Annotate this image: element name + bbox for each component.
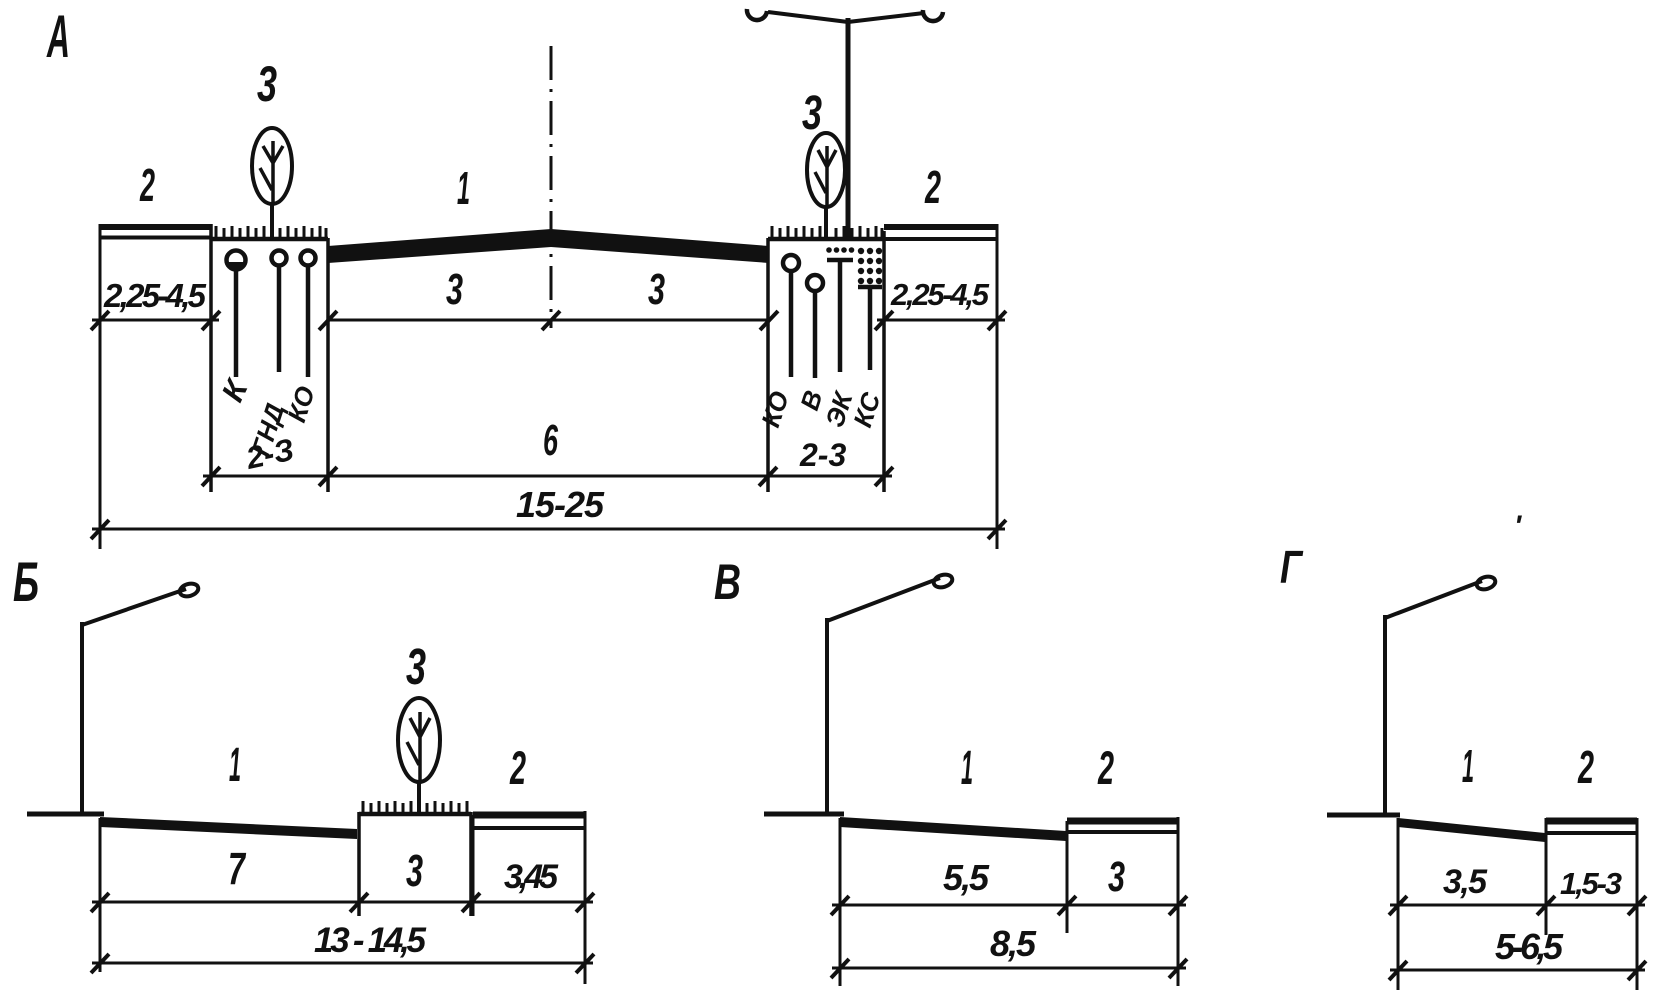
svg-text:5-6,5: 5-6,5 bbox=[1495, 926, 1564, 967]
ground line left of pole bbox=[764, 812, 844, 817]
sidewalk inner edge bbox=[1066, 821, 1069, 933]
svg-text:КО: КО bbox=[755, 387, 795, 430]
middle dimension line (2-3 / 6 / 2-3) bbox=[203, 475, 892, 478]
tree (left, section A) crown bbox=[252, 128, 292, 204]
svg-text:2,25-4,5: 2,25-4,5 bbox=[890, 277, 990, 312]
dim tick bbox=[91, 520, 109, 539]
svg-text:1: 1 bbox=[1462, 740, 1474, 792]
overall dimension line 8,5 bbox=[832, 967, 1186, 970]
svg-text:3: 3 bbox=[802, 87, 822, 140]
lamp arm left bbox=[768, 12, 848, 22]
ground line left of pole bbox=[1327, 813, 1400, 818]
left sidewalk top surface (double line) bbox=[100, 224, 211, 230]
left planting strip left edge bbox=[209, 224, 213, 492]
tree (section B) crown bbox=[398, 698, 440, 782]
svg-text:1: 1 bbox=[229, 739, 241, 792]
left extension line bbox=[99, 818, 102, 972]
dim tick bbox=[319, 311, 337, 330]
tree branches bbox=[815, 146, 836, 206]
utility V stem bbox=[813, 291, 818, 378]
road centreline (dash-dot) bbox=[550, 46, 553, 328]
ground line left of pole bbox=[27, 812, 104, 817]
dim tick bbox=[576, 954, 594, 973]
sidewalk inner edge bbox=[1545, 818, 1548, 935]
dim tick bbox=[1537, 896, 1555, 915]
utility V symbol (circle) bbox=[807, 275, 823, 291]
svg-text:А: А bbox=[46, 3, 70, 70]
svg-text:1: 1 bbox=[961, 742, 973, 795]
svg-text:2: 2 bbox=[139, 159, 155, 211]
roadway surface band (section V) bbox=[840, 817, 1066, 841]
planting strip left edge bbox=[357, 812, 361, 916]
dim tick bbox=[760, 311, 778, 330]
sidewalk top surface (double line) bbox=[1067, 818, 1178, 825]
svg-text:2-3: 2-3 bbox=[799, 437, 846, 473]
utility K stem bbox=[234, 270, 239, 377]
lamp arm bbox=[82, 589, 186, 625]
sidewalk top surface (double line) bbox=[473, 812, 585, 819]
utility KO2 stem bbox=[789, 271, 794, 377]
svg-text:3,45: 3,45 bbox=[504, 858, 559, 896]
utility KS stem bbox=[858, 285, 882, 290]
left strip grass ticks bbox=[216, 226, 326, 237]
planting strip right edge bbox=[469, 812, 473, 916]
svg-text:3: 3 bbox=[1108, 853, 1125, 901]
lamp post (section B) pole bbox=[80, 622, 84, 816]
lamp arm bbox=[827, 578, 940, 621]
svg-text:КО: КО bbox=[281, 382, 321, 425]
svg-text:2: 2 bbox=[1577, 741, 1594, 793]
svg-text:3: 3 bbox=[648, 265, 665, 314]
tree trunk bbox=[270, 203, 274, 239]
svg-text:В: В bbox=[714, 554, 741, 610]
dim tick bbox=[202, 311, 220, 330]
left extension line bbox=[839, 818, 842, 986]
sidewalk outer edge extension line bbox=[1636, 818, 1639, 990]
svg-text:3: 3 bbox=[446, 265, 463, 314]
first dimension line (3,5 / 1,5-3) bbox=[1390, 904, 1645, 907]
sidewalk inner edge bbox=[472, 815, 475, 916]
dim tick bbox=[759, 467, 777, 486]
tree (right, section A) crown bbox=[807, 133, 845, 207]
utility KS symbol (dotted duct bank) bbox=[858, 248, 882, 284]
tree trunk bbox=[824, 206, 828, 240]
svg-text:2: 2 bbox=[924, 161, 941, 213]
lamp head bbox=[932, 573, 954, 590]
svg-text:Г: Г bbox=[1280, 541, 1303, 593]
dim tick bbox=[1628, 896, 1646, 915]
utility GND stem bbox=[277, 266, 282, 372]
overall dimension line 5-6,5 bbox=[1390, 969, 1645, 972]
tree branches bbox=[260, 141, 283, 203]
overall dimension line 13-14,5 bbox=[92, 962, 593, 965]
right strip grass ticks bbox=[772, 226, 882, 237]
lamp post (section V) pole bbox=[825, 618, 829, 816]
dim tick bbox=[831, 959, 849, 978]
tree branches bbox=[407, 712, 430, 780]
dim tick bbox=[1389, 896, 1407, 915]
right planting strip right edge bbox=[882, 231, 886, 492]
dim tick bbox=[462, 893, 480, 912]
strip grass ticks bbox=[363, 801, 467, 812]
dim tick bbox=[91, 893, 109, 912]
svg-text:3: 3 bbox=[406, 638, 426, 695]
lamp head right bbox=[923, 10, 943, 21]
lamp head left bbox=[747, 9, 767, 20]
dim tick bbox=[350, 893, 368, 912]
right sidewalk dimension line bbox=[877, 319, 1005, 322]
dim tick bbox=[542, 311, 560, 330]
roadway surface band (section G) bbox=[1398, 818, 1545, 842]
left planting strip ground line bbox=[211, 237, 328, 242]
svg-text:3,5: 3,5 bbox=[1443, 863, 1488, 901]
left sidewalk dimension line bbox=[92, 319, 219, 322]
tree trunk bbox=[417, 780, 421, 814]
dim tick bbox=[988, 311, 1006, 330]
svg-text:3: 3 bbox=[257, 56, 277, 112]
svg-text:1,5-3: 1,5-3 bbox=[1560, 866, 1622, 901]
svg-text:15-25: 15-25 bbox=[516, 484, 605, 525]
planting strip ground line bbox=[359, 812, 471, 817]
dim tick bbox=[1628, 961, 1646, 980]
lamp arm bbox=[1385, 581, 1482, 618]
utility KO2 symbol (circle) bbox=[783, 255, 799, 271]
dim tick bbox=[1169, 959, 1187, 978]
overall dimension line 15-25 bbox=[92, 528, 1005, 531]
dim tick bbox=[576, 893, 594, 912]
dim tick bbox=[202, 467, 220, 486]
dim tick bbox=[875, 467, 893, 486]
utility K sewer symbol (circle, lower half filled) bbox=[227, 251, 246, 270]
svg-text:3: 3 bbox=[406, 845, 423, 896]
sidewalk outer edge extension line bbox=[1177, 817, 1180, 986]
utility EK symbol (T-bar with dots) bbox=[827, 258, 853, 263]
first dimension line (7 / 3 / 3,45) bbox=[92, 901, 593, 904]
roadway surface band with crown bbox=[328, 229, 769, 263]
svg-text:8,5: 8,5 bbox=[990, 923, 1037, 964]
first dimension line (5,5 / 3) bbox=[832, 904, 1186, 907]
left extension line bbox=[1397, 818, 1400, 990]
svg-text:2: 2 bbox=[1097, 741, 1114, 794]
utility GND symbol (circle) bbox=[272, 251, 287, 266]
sidewalk outer edge extension line bbox=[584, 811, 587, 984]
sidewalk top surface (double line) bbox=[1546, 818, 1637, 825]
svg-text:Б: Б bbox=[13, 550, 39, 613]
dim tick bbox=[91, 311, 109, 330]
svg-text:2,25-4,5: 2,25-4,5 bbox=[103, 277, 207, 314]
utility KO stem bbox=[306, 266, 311, 377]
right planting strip ground line bbox=[768, 237, 884, 242]
dim tick bbox=[831, 896, 849, 915]
svg-text:13 - 14,5: 13 - 14,5 bbox=[314, 921, 427, 960]
right sidewalk outer edge extension line bbox=[996, 224, 999, 549]
lamp post (section A) pole bbox=[846, 18, 851, 237]
carriageway dimension line bbox=[328, 319, 769, 322]
dim tick bbox=[988, 520, 1006, 539]
utility KO symbol (circle) bbox=[301, 251, 316, 266]
dim tick bbox=[91, 954, 109, 973]
left planting strip right edge bbox=[326, 238, 330, 492]
lamp post (section G) pole bbox=[1383, 615, 1387, 816]
svg-text:6: 6 bbox=[543, 416, 558, 465]
dim tick bbox=[1058, 896, 1076, 915]
svg-text:К: К bbox=[215, 373, 256, 407]
left sidewalk outer edge extension line bbox=[99, 224, 102, 549]
lamp arm right bbox=[848, 13, 924, 22]
svg-text:2: 2 bbox=[509, 741, 526, 794]
right sidewalk top surface (double line) bbox=[884, 224, 997, 230]
dim tick bbox=[1169, 896, 1187, 915]
dim tick bbox=[319, 467, 337, 486]
dim tick bbox=[1389, 961, 1407, 980]
svg-text:7: 7 bbox=[228, 843, 246, 894]
svg-text:5,5: 5,5 bbox=[943, 857, 990, 898]
lamp head bbox=[1475, 575, 1497, 592]
lamp head bbox=[178, 582, 200, 599]
roadway surface band (section B) bbox=[100, 817, 357, 839]
right planting strip left edge bbox=[766, 238, 770, 492]
dim tick bbox=[875, 311, 893, 330]
svg-text:КС: КС bbox=[847, 388, 887, 431]
svg-text:': ' bbox=[1514, 510, 1522, 543]
svg-text:1: 1 bbox=[457, 162, 470, 214]
